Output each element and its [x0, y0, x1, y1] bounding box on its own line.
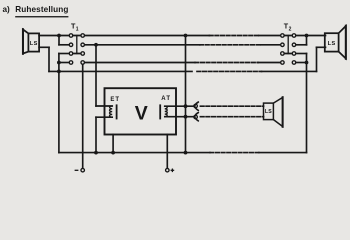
svg-text:LS: LS	[328, 41, 336, 47]
svg-text:a): a)	[3, 5, 11, 14]
svg-text:V: V	[135, 103, 148, 125]
svg-text:Ruhestellung: Ruhestellung	[15, 5, 68, 14]
svg-text:LS: LS	[30, 41, 38, 47]
svg-text:1: 1	[76, 26, 79, 32]
svg-text:ET: ET	[110, 97, 119, 103]
svg-text:AT: AT	[161, 96, 170, 102]
svg-text:2: 2	[289, 26, 292, 32]
svg-text:LS: LS	[265, 109, 272, 115]
